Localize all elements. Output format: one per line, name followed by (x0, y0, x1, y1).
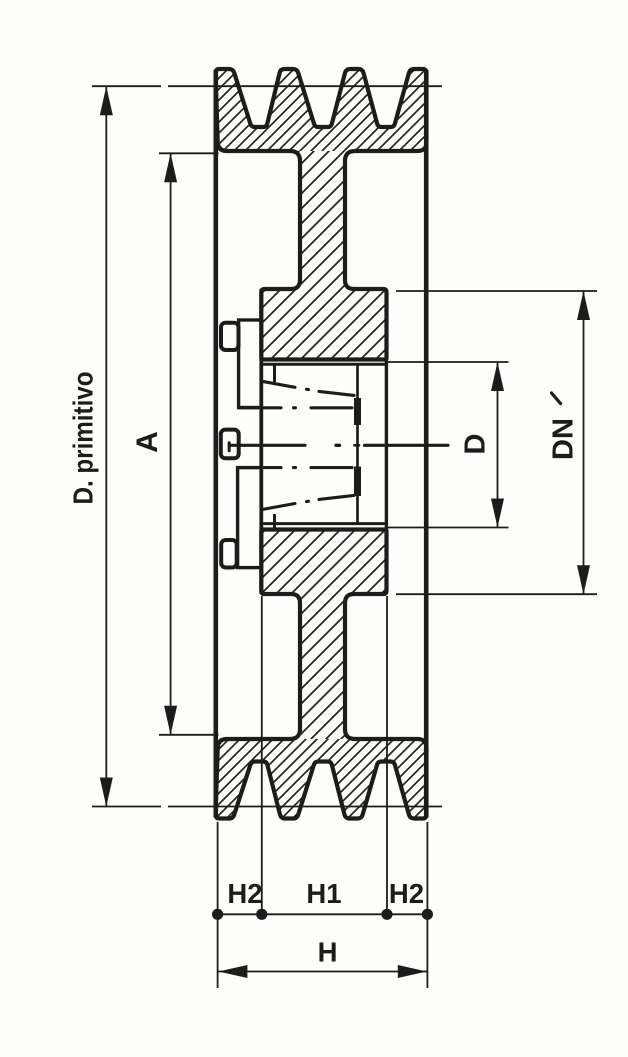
pulley lower rim + web + hub outline (216, 530, 427, 819)
node dot (right outer) (422, 909, 433, 920)
extension line DN (bottom) (396, 593, 597, 595)
node dot (left outer) (212, 909, 223, 920)
extension line (right outer) (426, 822, 428, 988)
dimension line H (218, 971, 427, 973)
pitch line (bottom) (92, 806, 161, 808)
extension line D (bottom) (388, 527, 509, 529)
extension line D (top) (388, 361, 509, 363)
lower screw centre-line (inclined dash-dot) (262, 495, 354, 509)
extension line (hub right) (386, 596, 388, 914)
lower horizontal screw centre-line (dash-dot) (239, 466, 353, 469)
bushing right edge (356, 363, 359, 524)
node line for H2/H1/H2 (218, 913, 428, 915)
left rim wall (214, 70, 219, 818)
bushing screw bore (lower, dark bar) (354, 467, 361, 497)
bushing screw bore (upper, dark bar) (354, 398, 361, 425)
pulley lower rim band hatching (212, 739, 430, 822)
dimension line D (497, 362, 499, 528)
dimension line A (170, 153, 172, 735)
extension line A (top) (159, 152, 219, 154)
extension line (hub left) (261, 596, 263, 914)
hub right face (385, 291, 388, 594)
main axis centre-line (229, 443, 448, 451)
prime mark after DN (552, 393, 561, 404)
svg-text:H: H (318, 937, 338, 968)
svg-text:H2: H2 (227, 878, 262, 909)
screw head (bottom) (221, 540, 237, 568)
bushing slit (top) (273, 364, 276, 382)
svg-text:D. primitivo: D. primitivo (69, 371, 99, 504)
node dot (hub left) (256, 909, 267, 920)
upper horizontal screw centre-line (dash-dot) (239, 406, 353, 409)
pulley upper rim band hatching (212, 66, 430, 151)
bushing slit (bottom) (273, 514, 276, 528)
extension line DN (top) (396, 290, 597, 292)
svg-text:A: A (131, 431, 164, 453)
svg-text:D: D (460, 434, 492, 455)
screw head (middle) (221, 430, 239, 459)
bushing flange collar (lower) (238, 468, 262, 568)
bushing bottom edge / hub bore (261, 522, 386, 525)
right rim wall (424, 70, 429, 818)
pulley upper rim + web + hub outline (216, 69, 427, 360)
extension line A (bottom) (159, 734, 219, 736)
dimension line DN (583, 291, 585, 594)
screw head (top) (221, 323, 239, 350)
svg-text:H2: H2 (389, 878, 424, 909)
upper screw centre-line (inclined dash-dot) (262, 381, 354, 395)
svg-text:DN: DN (548, 418, 580, 460)
node dot (hub right) (381, 909, 392, 920)
pulley upper web + hub hatching (212, 151, 430, 363)
extension line (left outer) (217, 822, 219, 988)
bushing top edge / hub bore (261, 363, 386, 366)
pulley lower web + hub hatching (212, 527, 430, 739)
bushing flange collar (upper) (239, 320, 262, 408)
pitch line (top) (92, 85, 161, 87)
svg-text:H1: H1 (306, 878, 341, 909)
hub left face (259, 289, 263, 594)
dimension line D. primitivo (105, 86, 107, 806)
